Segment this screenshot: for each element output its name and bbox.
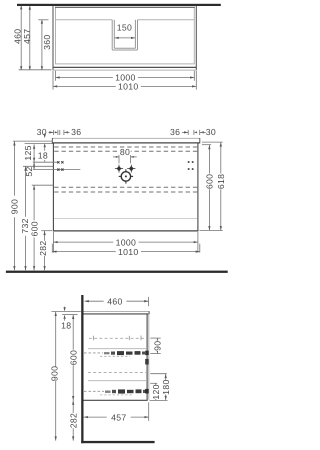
svg-text:900: 900 <box>9 199 19 214</box>
extension line 600 right top <box>202 144 211 146</box>
svg-text:282: 282 <box>68 413 78 428</box>
hidden dashed lines top pair <box>54 146 197 148</box>
svg-text:457: 457 <box>22 29 32 44</box>
svg-text:460: 460 <box>107 297 122 307</box>
svg-text:36: 36 <box>71 127 81 137</box>
svg-text:90: 90 <box>153 341 163 351</box>
dimension 180 extension line top <box>150 373 167 375</box>
svg-text:120: 120 <box>151 384 161 399</box>
svg-text:18: 18 <box>61 321 71 331</box>
cabinet right edge (top view) <box>193 7 195 64</box>
dimension 282 (side view) <box>72 400 74 413</box>
svg-text:600: 600 <box>29 221 39 236</box>
svg-text:36: 36 <box>170 127 180 137</box>
dimension 18 (side view) arrows <box>64 307 66 309</box>
dimension 80 (faucet holes) <box>119 148 130 155</box>
countertop outline right edge <box>195 6 197 70</box>
svg-text:457: 457 <box>111 412 126 422</box>
hidden dashed lines middle pair <box>54 186 197 188</box>
countertop outline left edge <box>52 6 54 70</box>
cabinet bottom edge (front view) <box>53 230 199 232</box>
siphon notch right walls <box>134 20 136 49</box>
drawer front face gray (side view) <box>148 314 150 400</box>
dimension 460 (top view depth) <box>20 6 22 70</box>
dimension 36 left <box>59 130 61 135</box>
upper drawer hidden dashed line <box>89 337 146 339</box>
dimension 732 <box>25 166 27 216</box>
dimension 282 (front view) <box>44 231 46 270</box>
svg-text:1010: 1010 <box>118 247 139 257</box>
countertop right end <box>199 138 201 143</box>
dimension 52 extension lines <box>33 161 58 163</box>
extension line bottom right <box>200 230 223 232</box>
upper drawer slide hardware <box>84 352 103 354</box>
svg-text:1000: 1000 <box>116 237 137 247</box>
dimension 1010 (front view) <box>52 251 116 253</box>
dimension 180 <box>165 374 167 401</box>
dimension 600 (front left) <box>33 185 35 220</box>
floor line (side view) <box>81 441 154 443</box>
cabinet back edge line <box>55 6 195 8</box>
extension line bottom (side view right) <box>150 399 168 401</box>
extension line 457 right <box>148 402 150 421</box>
extension line bottom for 460/457 <box>19 69 52 71</box>
cabinet right edge (front view) <box>197 143 199 232</box>
extension line 732 <box>23 165 53 167</box>
wall line (top view) <box>17 4 221 6</box>
cabinet left edge (top view) <box>55 7 57 64</box>
dimension 1000 (top view) <box>56 77 113 79</box>
drawer bracket (side view) <box>145 359 148 365</box>
dimension 30 right <box>199 130 201 135</box>
dimension 360 (notch to front) <box>41 20 43 70</box>
svg-text:360: 360 <box>42 34 52 49</box>
svg-text:460: 460 <box>12 29 22 44</box>
dimension 600 (front right) <box>208 145 210 174</box>
cabinet left edge (front view) <box>52 143 54 232</box>
countertop bottom line (front view) <box>52 142 200 144</box>
svg-text:900: 900 <box>49 366 59 381</box>
svg-text:600: 600 <box>68 350 78 365</box>
svg-text:600: 600 <box>205 174 215 189</box>
extension lines 1000/1010 (front view) <box>52 232 54 253</box>
cabinet inner back line left of notch <box>56 19 113 21</box>
dimension 900 (front view) <box>13 141 15 195</box>
svg-text:18: 18 <box>38 150 48 160</box>
lower drawer rail line <box>88 380 147 382</box>
drain hole circle <box>121 172 130 181</box>
extension lines for 1000/1010 (top view) <box>55 71 57 81</box>
countertop front edge dark <box>53 66 196 68</box>
svg-text:125: 125 <box>23 145 33 160</box>
svg-text:282: 282 <box>38 240 48 255</box>
dimension 125 <box>33 144 35 162</box>
cabinet front face dark (side view) <box>146 314 148 400</box>
lower drawer slide hardware <box>84 390 104 392</box>
extension line 600 left <box>32 184 54 186</box>
extension line 618 top <box>202 141 223 143</box>
dimension 618 <box>220 142 222 173</box>
dimension 460 (side view) <box>85 300 104 302</box>
dimension 18 (front view) <box>44 133 46 135</box>
dimension 1010 (top view) <box>53 85 116 87</box>
upper drawer rail line <box>88 348 147 350</box>
countertop top line (front view) <box>52 137 200 139</box>
cabinet bottom (side view) <box>84 399 148 401</box>
extension line 125 top <box>25 143 53 145</box>
dimension 90 extension lines <box>150 337 160 339</box>
svg-text:80: 80 <box>120 147 130 157</box>
dimension 18 (side view) extension lines <box>52 311 81 313</box>
drill marks left (x) <box>57 161 63 171</box>
dimension 900 (side view) <box>55 312 57 441</box>
extension line 282 <box>41 230 52 232</box>
extension line 900 top <box>13 140 53 142</box>
dimension 600 (side view) <box>72 315 74 350</box>
dimension 457 (side view) <box>84 416 107 418</box>
extension line 460 right <box>148 297 150 306</box>
svg-text:1010: 1010 <box>118 82 139 92</box>
siphon notch bottom <box>114 47 135 49</box>
dimension 120 extension line top <box>150 382 157 384</box>
dimension 1000 (front view) <box>53 241 113 243</box>
cabinet inner back line right of notch <box>137 19 194 21</box>
faucet hole mark left <box>115 165 123 173</box>
lower drawer hidden dashed line <box>88 372 146 374</box>
svg-text:180: 180 <box>161 379 171 394</box>
dimension 457 (cabinet depth) <box>29 6 31 69</box>
wall line (side view) <box>81 295 83 443</box>
drain circle radial ticks <box>119 169 133 183</box>
dimension 90 <box>156 338 158 353</box>
svg-text:150: 150 <box>117 22 132 32</box>
countertop front edge gray upper <box>56 63 195 65</box>
dimension 120 <box>155 383 157 400</box>
extension line for 360 <box>38 19 48 21</box>
countertop front edge gray lower <box>53 69 196 71</box>
svg-text:618: 618 <box>216 174 226 189</box>
drawer shadow line (front view) <box>54 217 197 219</box>
drill marks right (dots) <box>188 161 194 170</box>
floor line (front view) <box>6 271 228 273</box>
siphon notch left walls <box>111 20 113 50</box>
countertop (side view) <box>84 311 150 313</box>
countertop left end <box>51 138 53 143</box>
dimension 52 <box>33 162 35 169</box>
svg-text:30: 30 <box>206 127 216 137</box>
svg-text:732: 732 <box>20 218 30 233</box>
faucet hole mark right <box>127 165 135 173</box>
